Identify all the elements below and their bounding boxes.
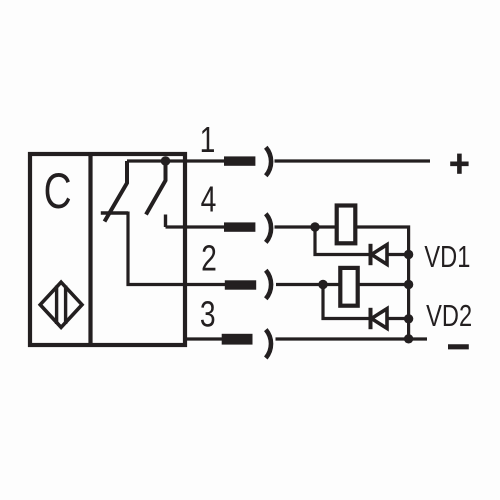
wire: common to terminal 1: [127, 159, 225, 162]
terminal pin 4: [224, 222, 255, 231]
connector arc 2: [266, 270, 271, 299]
relay coil K1: [337, 206, 356, 244]
wire: NC contact to terminal 2: [128, 212, 225, 285]
wire: VD1 branch: [315, 227, 369, 255]
wire: NO contact to terminal 4: [166, 225, 225, 228]
node: VD2 bus junction: [404, 314, 413, 323]
svg-text:1: 1: [200, 118, 216, 159]
node: minus bus junction: [404, 334, 413, 343]
capacitive sensor symbol right inner line: [64, 286, 67, 324]
minus sign: [448, 344, 469, 349]
node: VD1 bus junction: [404, 250, 413, 259]
capacitive sensor symbol (diamond): [40, 282, 82, 327]
diode VD2 cathode bar: [369, 308, 373, 329]
svg-text:4: 4: [201, 178, 217, 219]
wire: terminal 2 to relay K2: [276, 283, 340, 286]
contact NC fixed bar: [101, 211, 128, 214]
wire: K1 to bus: [357, 227, 409, 339]
node: K2 bus junction: [404, 280, 413, 289]
connector arc 4: [266, 214, 271, 243]
wire: K2 to bus: [359, 283, 409, 286]
diode VD2 triangle: [372, 309, 388, 329]
plus sign: [450, 154, 468, 174]
diode VD1 triangle: [372, 245, 388, 265]
node: terminal 2 branch: [318, 280, 327, 289]
wire: VD1 to bus: [387, 253, 409, 256]
connector arc 1: [266, 147, 271, 176]
terminal pin 2: [225, 280, 256, 289]
node: terminal 4 branch: [310, 222, 319, 231]
diode VD1 cathode bar: [369, 244, 373, 265]
terminal pin 3: [222, 334, 253, 345]
wire: terminal 1 to plus: [275, 159, 431, 162]
svg-text:3: 3: [200, 293, 216, 334]
connector arc 3: [266, 330, 271, 358]
svg-text:VD1: VD1: [424, 239, 470, 274]
svg-text:VD2: VD2: [426, 298, 472, 333]
wire: VD2 to bus: [387, 317, 409, 320]
svg-text:2: 2: [201, 237, 217, 278]
wire: terminal 4 to relay K1: [275, 225, 337, 228]
svg-text:C: C: [44, 165, 72, 220]
wire: box to terminal 3: [185, 337, 222, 340]
sensor body divider: [88, 152, 92, 347]
terminal pin 1: [224, 156, 255, 165]
contact lever NC (left): [105, 161, 128, 222]
contact lever NO (right): [146, 163, 166, 215]
sensor body outline: [30, 154, 185, 345]
wire: VD2 branch: [323, 285, 369, 319]
relay coil K2: [340, 268, 357, 306]
capacitive sensor symbol left inner line: [55, 286, 58, 324]
node: common junction: [161, 156, 171, 166]
wire: terminal 3 to minus: [276, 337, 428, 340]
contact NO fixed tick: [164, 215, 167, 228]
